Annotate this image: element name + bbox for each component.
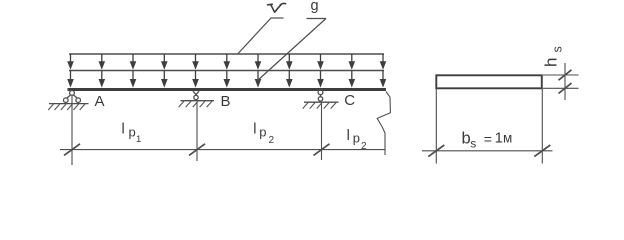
support C hatching bbox=[303, 103, 336, 109]
svg-text:b: b bbox=[462, 130, 471, 148]
section extension right bbox=[541, 89, 543, 164]
tick bs left bbox=[428, 145, 444, 157]
section extension left bbox=[435, 89, 437, 164]
support A hatching bbox=[48, 104, 85, 110]
svg-text:2: 2 bbox=[361, 141, 367, 152]
svg-text:l: l bbox=[253, 122, 256, 138]
tick hs bottom bbox=[559, 83, 572, 93]
svg-text:1: 1 bbox=[136, 134, 141, 145]
leader line label v bbox=[271, 17, 284, 19]
svg-text:=: = bbox=[484, 131, 492, 147]
support B (roller link) bbox=[181, 91, 215, 101]
tick bs right bbox=[534, 145, 550, 157]
svg-text:l: l bbox=[122, 122, 125, 138]
svg-text:A: A bbox=[95, 93, 105, 110]
tick hs top bbox=[559, 70, 572, 80]
svg-text:1: 1 bbox=[495, 130, 503, 147]
svg-text:p: p bbox=[353, 131, 360, 146]
support C (roller link) bbox=[304, 90, 339, 102]
extension line A bbox=[71, 96, 73, 166]
load arrows bbox=[67, 54, 386, 88]
support A (pinned) bbox=[49, 91, 89, 104]
svg-text:l: l bbox=[347, 128, 350, 144]
load line top (v load) bbox=[69, 53, 384, 55]
arrow col 8 bbox=[286, 54, 293, 88]
svg-text:p: p bbox=[259, 125, 266, 140]
support B hatching bbox=[179, 101, 212, 107]
arrow col 1 bbox=[67, 54, 74, 88]
extension line B bbox=[196, 103, 198, 162]
load line middle (g load) bbox=[69, 70, 384, 72]
hs extension top bbox=[543, 74, 579, 76]
tick at A bbox=[64, 144, 80, 156]
arrow col 3 bbox=[130, 54, 137, 88]
svg-text:s: s bbox=[551, 46, 565, 52]
svg-text:C: C bbox=[344, 92, 355, 109]
break line right end bbox=[377, 92, 390, 156]
tick at B bbox=[189, 144, 205, 156]
tick at C bbox=[314, 144, 330, 156]
svg-text:g: g bbox=[311, 0, 319, 14]
dimension line bs bbox=[422, 150, 553, 152]
dimension line spans bbox=[60, 149, 385, 151]
label hs (rotated) bbox=[542, 46, 565, 67]
svg-text:h: h bbox=[542, 58, 561, 67]
arrow col 7 bbox=[255, 54, 262, 88]
arrow col 9 bbox=[317, 54, 324, 88]
svg-text:s: s bbox=[470, 137, 476, 151]
beam bbox=[68, 88, 387, 91]
svg-text:p: p bbox=[129, 125, 136, 140]
svg-text:B: B bbox=[221, 93, 231, 110]
leader line label g bbox=[307, 18, 327, 20]
hs dimension line bbox=[564, 63, 566, 100]
label v bbox=[268, 3, 286, 12]
extension line C bbox=[321, 104, 323, 161]
section rectangle bbox=[436, 75, 542, 88]
arrow col 11 bbox=[380, 54, 387, 88]
arrow col 6 bbox=[224, 54, 231, 88]
hs extension bottom bbox=[543, 87, 579, 89]
svg-text:м: м bbox=[503, 131, 512, 146]
arrow col 10 bbox=[349, 54, 356, 88]
arrow col 5 bbox=[192, 54, 199, 88]
arrow col 4 bbox=[161, 54, 168, 88]
svg-text:2: 2 bbox=[269, 135, 275, 146]
arrow col 2 bbox=[99, 54, 106, 88]
